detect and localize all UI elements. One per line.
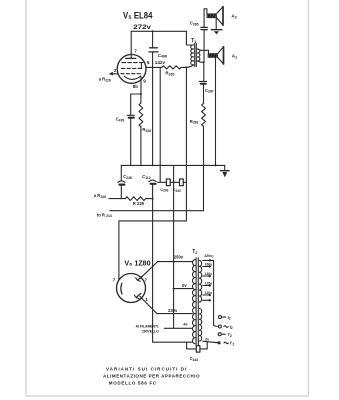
V6 cathode arc	[121, 283, 122, 294]
wire tap 125v	[203, 285, 210, 287]
svg-text:V₆ 1Z80: V₆ 1Z80	[124, 258, 150, 267]
wire filament tap	[164, 327, 192, 329]
wire R230 to T1	[181, 65, 194, 68]
svg-text:C476: C476	[116, 117, 125, 123]
svg-text:160v: 160v	[205, 263, 213, 267]
node junction rail C498	[152, 30, 154, 32]
capacitor C242	[196, 346, 197, 352]
svg-text:C287: C287	[205, 88, 214, 94]
svg-text:I2: I2	[228, 315, 231, 321]
svg-text:0v: 0v	[205, 337, 209, 341]
wire tap 110v	[203, 294, 210, 296]
wire R228 to bus	[140, 127, 142, 166]
wire C240 right corner down	[183, 181, 186, 183]
svg-text:T1: T1	[191, 38, 196, 44]
wire 0v tap	[174, 288, 193, 290]
ground at bus right	[224, 165, 226, 170]
transformer T2 core	[195, 258, 197, 346]
svg-text:140v: 140v	[205, 272, 213, 276]
node junction R230 vertical	[185, 66, 187, 68]
svg-text:142v: 142v	[155, 60, 166, 65]
transformer T2 primary winding	[192, 260, 195, 344]
wire 230v tap	[157, 313, 192, 315]
wire 250v tap	[158, 261, 193, 263]
wire 0v secondary tap	[203, 341, 218, 343]
wire C476 top lead	[130, 94, 132, 115]
transformer T1 primary winding	[191, 45, 194, 65]
svg-text:4v: 4v	[183, 322, 188, 327]
V5 grid 3	[122, 62, 143, 64]
svg-text:A1: A1	[232, 54, 237, 60]
V5 grid 1	[121, 73, 141, 75]
terminal I'2	[218, 333, 221, 336]
svg-text:I2: I2	[230, 324, 233, 330]
speaker A1 voice coil	[208, 53, 218, 58]
svg-text:A2: A2	[231, 13, 236, 19]
wire C498 top lead	[152, 31, 154, 47]
svg-text:R281: R281	[190, 119, 199, 125]
svg-text:a R226: a R226	[99, 77, 111, 83]
svg-text:110v: 110v	[205, 291, 212, 295]
page border right	[308, 0, 310, 396]
speaker A2 voice coil	[207, 13, 217, 18]
wire V6 pin7 diagonal to 250v	[140, 262, 157, 279]
tube V5 envelope	[117, 55, 146, 84]
svg-text:7: 7	[134, 49, 137, 54]
wire C476 to bus	[130, 119, 132, 166]
wire V6 pin1 diagonal to 230v	[140, 296, 157, 313]
svg-text:C265: C265	[190, 21, 199, 27]
wire C246 branch	[120, 165, 122, 180]
V5 cathode	[124, 76, 140, 79]
svg-text:T2: T2	[192, 249, 197, 255]
svg-text:C112: C112	[142, 174, 151, 180]
svg-text:MODELLO 586 FC: MODELLO 586 FC	[109, 380, 157, 385]
capacitor C287	[199, 80, 206, 82]
wire screen branch down	[159, 67, 161, 182]
resistor R228	[140, 94, 142, 103]
wire C242 left leg	[187, 342, 196, 349]
wire R281 down across bus	[203, 126, 205, 211]
V6 diode plate NE	[138, 276, 143, 280]
wire cathode branch bar	[131, 93, 141, 95]
transformer T2 secondary lower	[199, 309, 201, 342]
svg-text:8b: 8b	[133, 84, 138, 89]
V6 diode plate SE	[136, 293, 141, 297]
V5 grid 2	[121, 67, 141, 69]
svg-text:R 229: R 229	[133, 201, 145, 206]
svg-text:R230: R230	[165, 71, 174, 77]
terminal I2	[219, 316, 222, 319]
svg-text:V₅ EL84: V₅ EL84	[123, 10, 152, 20]
svg-text:5: 5	[147, 60, 150, 65]
svg-text:220v2: 220v2	[204, 254, 214, 259]
capacitor C498	[149, 48, 158, 52]
svg-text:AI FILAMENTI:: AI FILAMENTI:	[136, 324, 160, 328]
svg-text:C246: C246	[123, 174, 132, 180]
svg-text:1: 1	[145, 297, 148, 302]
svg-text:0v: 0v	[182, 283, 187, 288]
wire cathode lead	[140, 76, 143, 94]
transformer T1 secondary winding	[197, 49, 200, 61]
wire line3	[119, 220, 186, 222]
wire T1 junction down long	[185, 67, 187, 221]
wire primary bottom tap	[153, 341, 193, 343]
wire mid vertical 173	[173, 165, 175, 328]
wire grid stub pin2	[110, 73, 118, 75]
wire C265 down / A1 return chain	[203, 30, 205, 62]
svg-text:7: 7	[144, 277, 147, 282]
wire C246 to R229 wire	[120, 186, 122, 199]
svg-text:R228: R228	[142, 127, 151, 133]
wire V6 pin7 feed	[118, 221, 120, 280]
wire T1 primary top feed	[186, 31, 193, 45]
wire screen to R230	[146, 66, 162, 68]
capacitor C240	[180, 179, 182, 186]
resistor R281	[202, 103, 206, 126]
wire line2 to R213	[110, 210, 204, 212]
wire T1 secondary top to coil A1	[197, 49, 208, 53]
svg-text:9: 9	[143, 79, 146, 84]
tube V6 envelope	[117, 274, 146, 303]
svg-text:VARIANTI SUI CIRCUITI DI: VARIANTI SUI CIRCUITI DI	[106, 367, 187, 372]
svg-text:to R 213: to R 213	[97, 212, 112, 218]
capacitor C265	[201, 26, 207, 28]
wire C498 down to bus	[152, 52, 154, 165]
wire 272V rail	[131, 30, 186, 32]
svg-text:C498: C498	[158, 53, 167, 59]
wire 220v tap	[203, 259, 214, 261]
svg-text:I’2: I’2	[230, 341, 234, 347]
wire A2 coil right down	[215, 18, 217, 29]
wire HT bus	[121, 164, 224, 166]
capacitor C299	[166, 179, 168, 186]
wire tap bottom upper	[203, 299, 210, 301]
wire C242 right leg	[201, 342, 208, 349]
svg-text:230v: 230v	[168, 308, 178, 313]
wire caps row left	[158, 181, 166, 183]
svg-text:C242: C242	[190, 356, 199, 362]
page border bottom	[26, 395, 309, 397]
transformer T1 core	[194, 44, 196, 67]
speaker A2 cone	[222, 7, 224, 26]
svg-text:250v: 250v	[174, 255, 184, 260]
svg-text:CRIVELLO: CRIVELLO	[142, 330, 160, 334]
wire R229 left	[109, 198, 125, 200]
page border left	[25, 0, 27, 396]
wire tap 140v	[203, 275, 210, 277]
svg-text:ALIMENTAZIONE PER APPARECCHIO: ALIMENTAZIONE PER APPARECCHIO	[103, 374, 200, 379]
speaker A1 cone	[223, 47, 225, 64]
capacitor C112	[149, 180, 156, 182]
svg-text:C299: C299	[160, 187, 168, 193]
wire T1 secondary bottom stub	[197, 61, 204, 62]
wire between C299 C240	[170, 181, 179, 183]
capacitor C476	[127, 114, 134, 116]
terminal ~I2	[218, 325, 221, 328]
wire R229 right	[146, 198, 153, 200]
svg-text:2: 2	[114, 68, 117, 73]
svg-text:I’2: I’2	[228, 332, 232, 338]
wire A1 coil return to bus	[215, 58, 217, 165]
wire C287 to R281	[203, 85, 205, 104]
V5 internal g2 link	[140, 64, 142, 69]
wire selector down to I2	[214, 260, 218, 326]
wire C112 down long	[152, 185, 154, 342]
svg-text:7: 7	[113, 277, 116, 282]
wire tap 160v	[203, 266, 210, 268]
wire A2 coil left hook	[204, 9, 207, 27]
ground at speaker A2	[211, 29, 222, 31]
terminal ~I'2	[217, 341, 220, 344]
svg-text:125v: 125v	[205, 282, 213, 286]
resistor R229	[125, 197, 145, 201]
capacitor C246	[118, 181, 125, 183]
wire plate lead	[130, 31, 132, 58]
svg-text:272v: 272v	[133, 24, 151, 31]
svg-text:a R226: a R226	[94, 193, 106, 199]
resistor R230	[162, 66, 181, 69]
V5 plate	[126, 57, 136, 59]
transformer T2 secondary upper	[199, 260, 201, 302]
